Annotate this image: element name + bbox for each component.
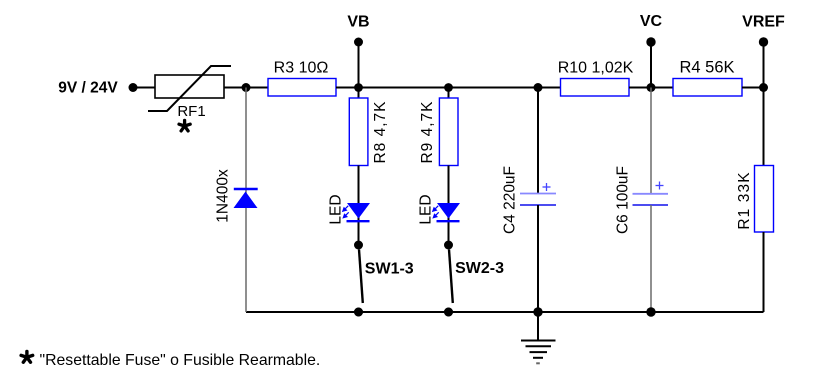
- asterisk marker footnote: [21, 351, 33, 362]
- svg-text:C6 100uF: C6 100uF: [615, 166, 632, 234]
- svg-text:RF1: RF1: [177, 103, 205, 120]
- svg-text:R1 33K: R1 33K: [736, 171, 753, 229]
- wire C6 to bottom rail: [650, 205, 652, 312]
- resistor R9 body: [439, 98, 458, 166]
- resistor R8 body: [349, 98, 368, 166]
- terminal dot 9V/24V: [129, 83, 138, 92]
- wire node C to R10: [538, 87, 561, 89]
- wire RF1 to node A: [224, 87, 268, 89]
- wire R3 to node VB: [336, 87, 359, 89]
- wire C4 to bottom rail: [537, 205, 539, 312]
- pin dot VREF: [759, 37, 768, 46]
- svg-text:R8 4,7K: R8 4,7K: [372, 100, 389, 163]
- svg-text:R9 4,7K: R9 4,7K: [419, 100, 436, 163]
- switch SW1-3: [354, 241, 363, 317]
- wire VREF to R1: [763, 88, 765, 166]
- wire node B to R9: [448, 88, 450, 99]
- wire R1 to bottom rail: [763, 232, 765, 312]
- wire VB node to R8: [358, 88, 360, 99]
- svg-text:SW1-3: SW1-3: [365, 261, 414, 278]
- switch SW2-3: [444, 241, 453, 317]
- svg-text:SW2-3: SW2-3: [455, 260, 504, 277]
- svg-text:VREF: VREF: [742, 14, 785, 31]
- wire VC stub: [650, 42, 652, 88]
- pin dot VB: [354, 38, 363, 47]
- svg-text:R4 56K: R4 56K: [679, 59, 734, 77]
- bottom ground rail wire: [246, 311, 764, 313]
- capacitor C6: [633, 182, 669, 206]
- junction dot bottom SW1: [354, 308, 363, 317]
- ground symbol: [521, 312, 556, 363]
- wire input to RF1: [133, 87, 155, 89]
- resistor R1 body: [755, 166, 774, 233]
- wire node B to node C4: [449, 87, 539, 89]
- junction node VREF: [759, 83, 768, 92]
- resistor R3 body: [268, 79, 336, 97]
- capacitor C4: [520, 183, 556, 205]
- svg-text:LED: LED: [328, 194, 345, 224]
- wire R9 to LED2: [448, 166, 450, 246]
- junction dot bottom SW2: [444, 308, 453, 317]
- svg-text:R10 1,02K: R10 1,02K: [558, 60, 634, 77]
- junction node C: [534, 83, 543, 92]
- diode 1N400x: [234, 189, 258, 208]
- LED D1: [343, 203, 370, 221]
- LED D2: [433, 203, 460, 221]
- resettable fuse RF1 body: [148, 66, 231, 111]
- left branch wire through diode: [245, 88, 247, 313]
- svg-text:R3 10Ω: R3 10Ω: [274, 60, 329, 77]
- junction node A: [242, 83, 251, 92]
- resistor R4 body: [673, 79, 742, 97]
- wire VB stub: [358, 42, 360, 88]
- svg-text:1N400x: 1N400x: [215, 169, 232, 223]
- junction node VB: [354, 83, 363, 92]
- junction node VC: [647, 83, 656, 92]
- junction dot bottom C4/ground: [533, 307, 542, 316]
- svg-text:VB: VB: [347, 14, 369, 31]
- wire R8 to LED1: [358, 166, 360, 246]
- svg-text:C4 220uF: C4 220uF: [502, 166, 519, 234]
- wire node VB to node B: [359, 87, 449, 89]
- pin dot VC: [646, 37, 655, 46]
- resistor R10 body: [561, 79, 630, 97]
- wire VC node to C6: [650, 88, 652, 194]
- wire R4 to node VREF: [742, 87, 764, 89]
- svg-text:"Resettable Fuse" o Fusible Re: "Resettable Fuse" o Fusible Rearmable.: [40, 352, 321, 369]
- junction node B: [444, 83, 453, 92]
- svg-text:VC: VC: [640, 13, 663, 30]
- wire node C to C4: [537, 88, 539, 194]
- junction dot bottom C6: [646, 307, 655, 316]
- wire R10 to node VC: [629, 87, 673, 89]
- wire VREF stub: [763, 42, 765, 88]
- svg-text:LED: LED: [418, 194, 435, 224]
- svg-text:9V / 24V: 9V / 24V: [58, 80, 118, 97]
- asterisk marker for RF1: [179, 120, 190, 130]
